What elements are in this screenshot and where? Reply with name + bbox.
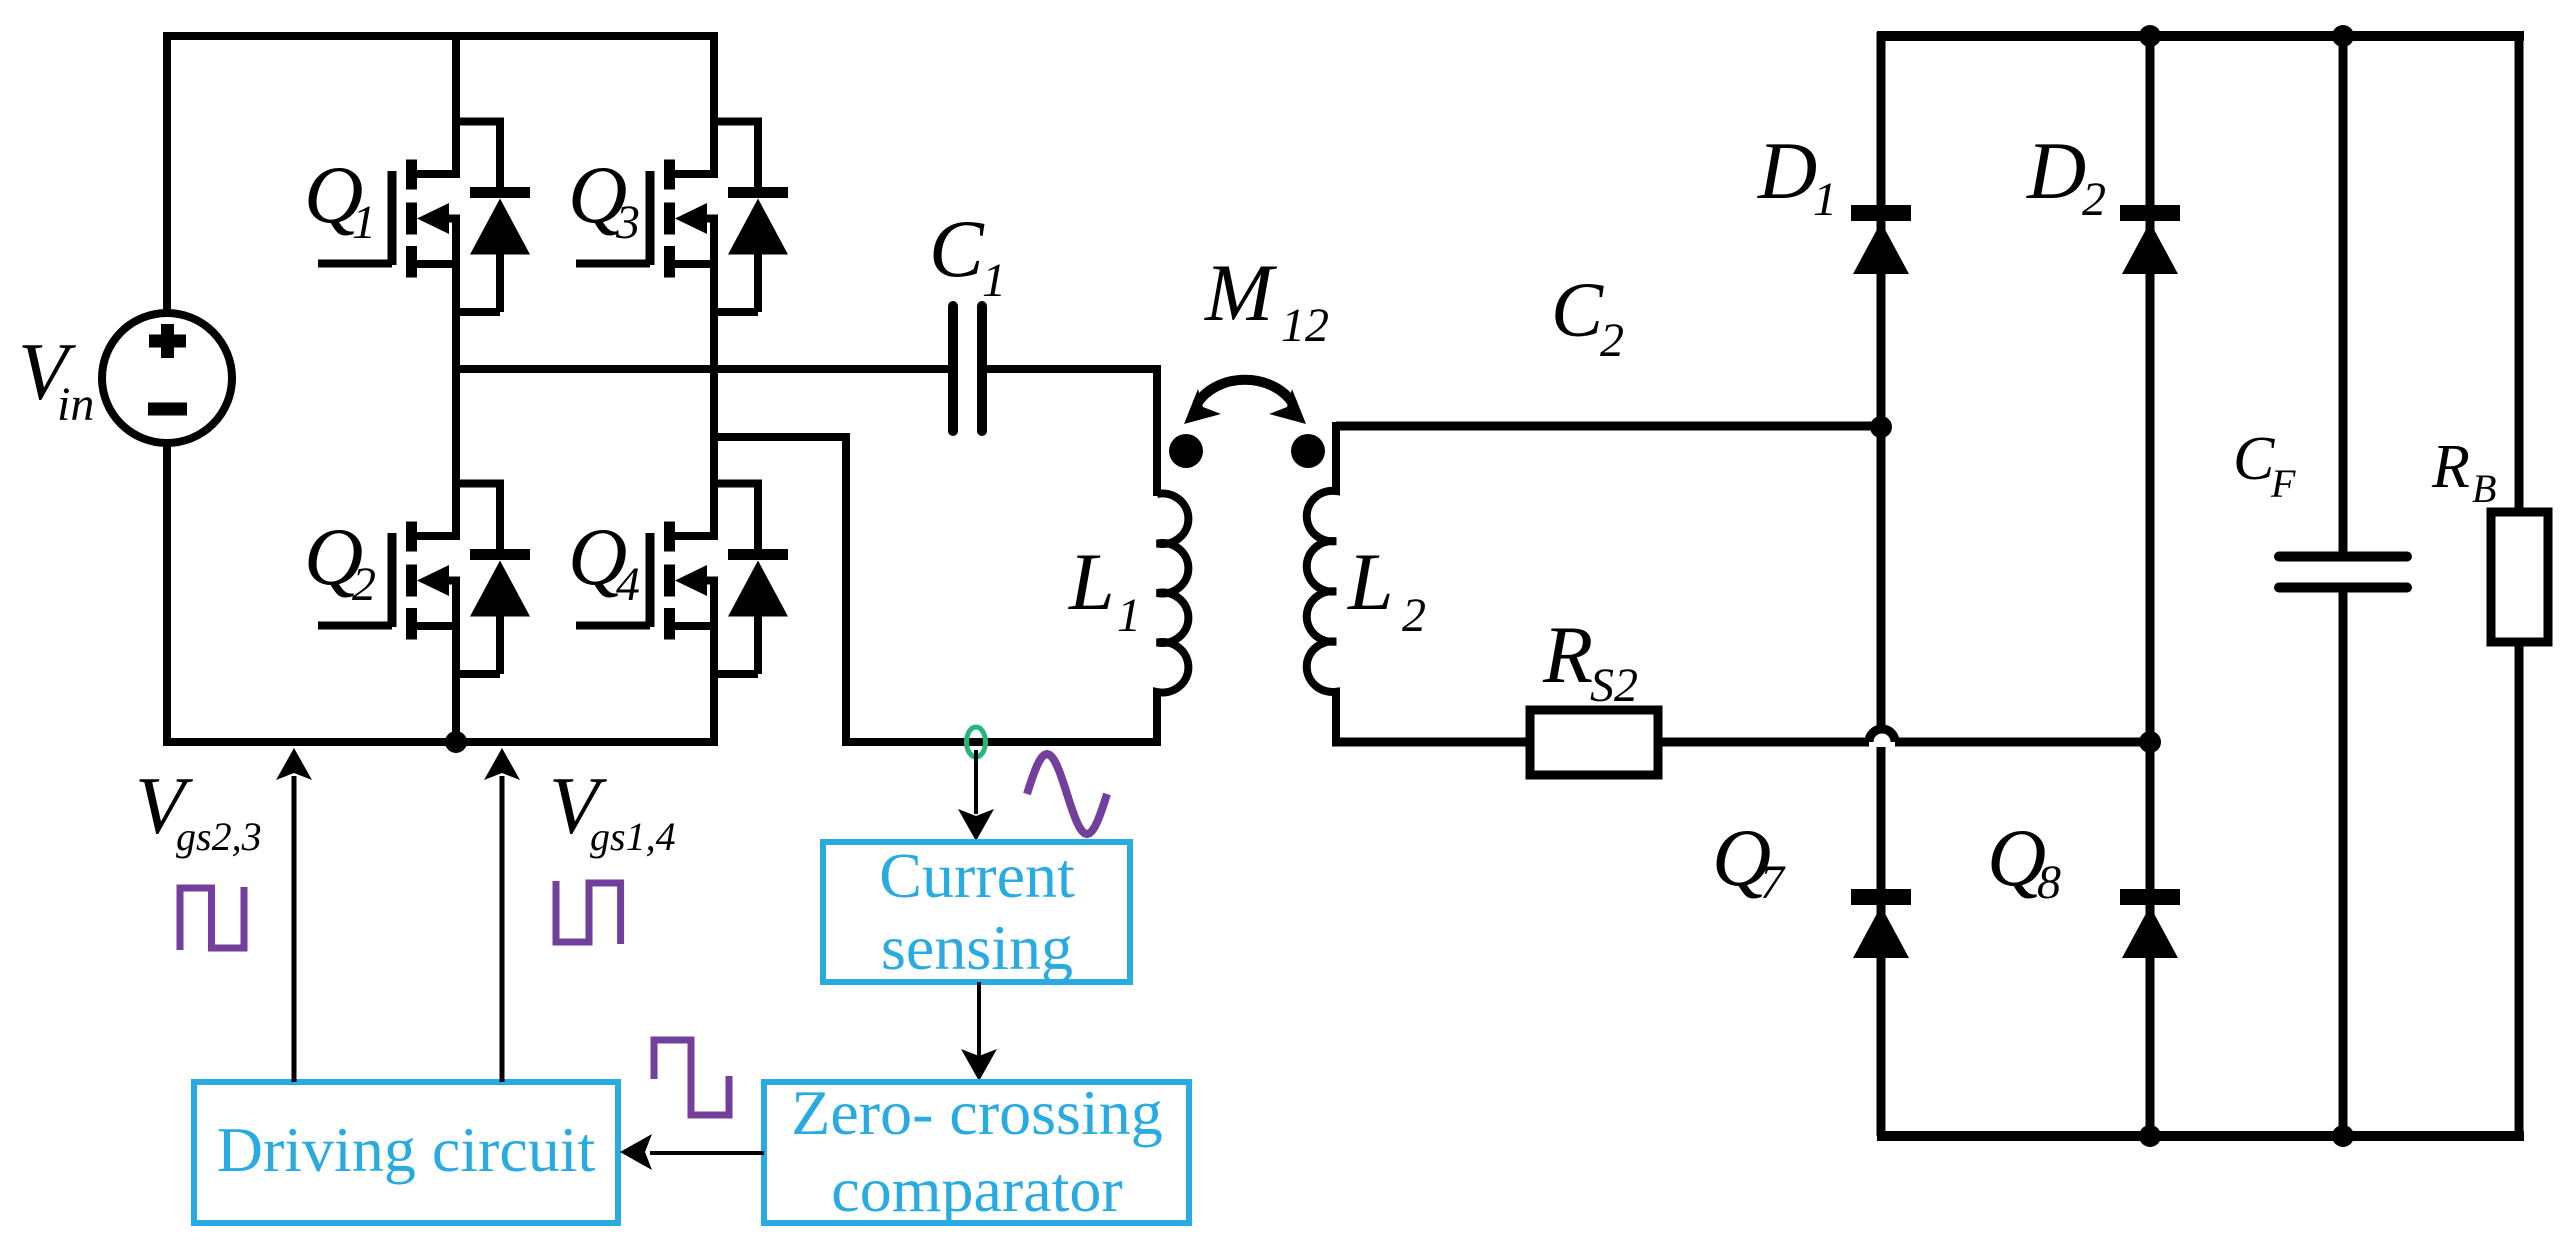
capacitor CF	[2279, 557, 2407, 588]
wire C2 net	[1336, 422, 1882, 431]
wire L2 bottom to RS2	[1332, 738, 1532, 747]
transistor Q2	[318, 484, 530, 675]
waveform square Vgs23	[180, 887, 244, 950]
svg-text:C1: C1	[929, 203, 1006, 307]
wire RB branch upper	[2515, 31, 2524, 514]
svg-text:Zero- crossing: Zero- crossing	[791, 1077, 1162, 1148]
waveform square Vgs14	[556, 881, 621, 944]
diode D2	[2120, 205, 2180, 274]
wire left vertical upper	[163, 32, 171, 314]
wire right leg upper	[710, 32, 718, 178]
block Zero-crossing comparator	[764, 1082, 1189, 1223]
wire top rail primary	[163, 32, 718, 40]
svg-text:L2: L2	[1347, 536, 1426, 642]
svg-text:Vin: Vin	[18, 326, 94, 431]
inductor L2	[1307, 422, 1336, 746]
wire left leg lower	[452, 581, 460, 746]
wire sensing tap arrow	[974, 750, 978, 814]
svg-text:Q2: Q2	[304, 511, 376, 611]
node current sensing tap	[967, 727, 986, 757]
wire bottom rail primary	[163, 738, 718, 746]
wire RB branch lower	[2515, 642, 2524, 1140]
svg-text:L1: L1	[1068, 536, 1141, 642]
transistor Q3	[576, 122, 788, 313]
wire left leg upper	[452, 32, 460, 178]
wire rectifier second branch	[2146, 32, 2155, 1136]
wire bridge output A	[452, 365, 949, 373]
wire Vgs23 arrow	[292, 776, 297, 1082]
resistor RS2	[1530, 710, 1658, 775]
wire sensing to comparator arrow	[977, 982, 981, 1056]
block Driving circuit	[194, 1082, 618, 1223]
svg-text:C2: C2	[1551, 266, 1624, 367]
wire RS2 to hop	[1658, 738, 1869, 747]
svg-text:Vgs1,4: Vgs1,4	[549, 760, 676, 859]
wire C1 to L1 top	[986, 369, 1157, 496]
node top rail D2	[2139, 25, 2161, 47]
wire bridge output B	[710, 437, 1161, 742]
svg-text:RB: RB	[2431, 433, 2496, 511]
transformer dot secondary	[1291, 434, 1325, 468]
wire CF branch upper	[2339, 31, 2348, 554]
diode Q7	[1851, 889, 1911, 958]
node bottom rail CF	[2332, 1125, 2354, 1147]
svg-text:RS2: RS2	[1542, 609, 1638, 712]
svg-text:comparator: comparator	[831, 1154, 1122, 1225]
svg-text:CF: CF	[2233, 425, 2296, 506]
diode Q8	[2120, 889, 2180, 958]
wire right leg lower	[710, 581, 718, 746]
wire hop to Q8 line	[1895, 738, 2150, 747]
node C2 junction	[1870, 416, 1892, 438]
inductor L1	[1157, 493, 1188, 746]
svg-text:Q1: Q1	[304, 149, 376, 249]
transformer dot primary	[1169, 434, 1203, 468]
svg-text:sensing: sensing	[881, 912, 1073, 983]
svg-text:Driving circuit: Driving circuit	[217, 1114, 596, 1185]
wire CF branch lower	[2339, 590, 2348, 1140]
svg-text:Q4: Q4	[568, 511, 640, 611]
waveform square comparator	[654, 1040, 729, 1115]
svg-text:M12: M12	[1204, 247, 1329, 352]
svg-text:Q7: Q7	[1712, 812, 1786, 909]
svg-text:Current: Current	[879, 840, 1075, 911]
wire right leg middle	[710, 215, 718, 541]
block Current sensing	[823, 842, 1130, 982]
mutual coupling arrow M12	[1184, 380, 1306, 424]
transistor Q4	[576, 484, 788, 675]
wire hop over D1 line	[1869, 729, 1895, 747]
wire left leg middle	[452, 215, 460, 541]
node bottom junction	[445, 731, 467, 753]
wire Vgs14 arrow	[500, 776, 505, 1082]
diode D1	[1851, 205, 1911, 274]
wire left vertical lower	[163, 442, 171, 746]
resistor RB	[2491, 512, 2548, 642]
svg-text:Q3: Q3	[568, 149, 640, 249]
wire secondary top rail	[1877, 31, 2524, 41]
capacitor C1	[953, 306, 982, 431]
svg-text:Q8: Q8	[1987, 812, 2061, 909]
node top rail CF	[2332, 25, 2354, 47]
node secondary mid junction	[2139, 731, 2161, 753]
voltage source Vin	[102, 313, 232, 443]
wire secondary bottom rail	[1877, 1131, 2524, 1141]
wire rectifier left branch	[1877, 32, 1886, 1136]
transistor Q1	[318, 122, 530, 313]
node bottom rail Q8	[2139, 1125, 2161, 1147]
wire comparator to driving arrow	[650, 1151, 764, 1155]
svg-text:Vgs2,3: Vgs2,3	[135, 760, 262, 859]
svg-text:D2: D2	[2026, 125, 2106, 226]
waveform sine	[1027, 754, 1107, 834]
svg-text:D1: D1	[1757, 125, 1837, 226]
